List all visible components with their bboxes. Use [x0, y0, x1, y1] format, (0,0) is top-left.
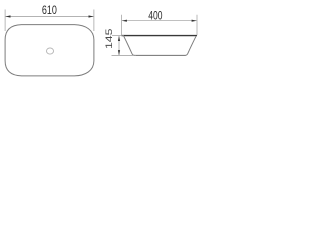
- side view top edge: [122, 35, 198, 37]
- dim 145 line: [118, 36, 120, 55]
- dim 145 arrow bottom: [118, 50, 120, 55]
- dim 400 arrow left: [122, 20, 127, 22]
- side view right wall: [185, 36, 196, 55]
- dim 610 arrow right: [89, 15, 94, 17]
- dim 145 extension line top: [112, 35, 124, 37]
- dim 400 extension line right: [196, 15, 198, 35]
- top view basin outline: [5, 25, 94, 76]
- dim 145 extension line bottom: [112, 54, 137, 56]
- dim 400 line: [122, 20, 197, 22]
- side view bottom edge: [134, 54, 186, 56]
- dim 610 line: [6, 16, 94, 18]
- dim 145 arrow top: [118, 36, 120, 41]
- dim 400 extension line left: [121, 15, 123, 35]
- dim 610 arrow left: [5, 15, 10, 17]
- dim 400 arrow right: [192, 20, 197, 22]
- dim 610 extension line right: [93, 10, 95, 32]
- dim 610 extension line left: [4, 10, 6, 32]
- svg-text:145: 145: [104, 29, 114, 50]
- svg-text:400: 400: [148, 8, 162, 22]
- side view left wall: [124, 36, 135, 55]
- svg-text:610: 610: [42, 3, 57, 17]
- drain circle: [47, 48, 54, 54]
